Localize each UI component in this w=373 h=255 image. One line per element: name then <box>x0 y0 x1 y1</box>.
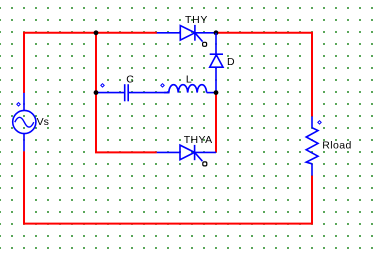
voltage source Vs <box>13 93 36 151</box>
wire THYA cathode to L/D node: vertical from (216,152.4) up to (216,92.6) <box>215 93 217 153</box>
gate terminal circle THY <box>203 42 207 46</box>
wire top-right: THY cathode node to top-right corner, down to Rload <box>216 33 312 117</box>
wire top-left: node at (96,33) to top-left corner and down left side to Vs <box>24 33 96 93</box>
polarity marker Vs <box>17 103 20 106</box>
wire bottom loop: Vs bottom down, along bottom, up to Rload bottom <box>24 151 312 223</box>
capacitor C <box>96 84 169 101</box>
svg-text:D: D <box>227 56 235 68</box>
svg-text:Rload: Rload <box>322 140 351 152</box>
wire top-mid: junction (96,33) to THY anode lead <box>96 32 157 34</box>
svg-text:C: C <box>126 73 134 85</box>
svg-text:L: L <box>186 74 192 86</box>
svg-text:THYA: THYA <box>184 134 213 146</box>
polarity marker Rload <box>318 121 321 124</box>
junction node (216,92.6) <box>214 90 219 95</box>
wire mid vertical: junction (96,33) down through (96,92.6) to THYA row, then right to THYA anode <box>96 33 157 153</box>
junction node (216,33) <box>214 30 219 35</box>
junction node (96,33) <box>94 30 99 35</box>
svg-text:Vs: Vs <box>37 116 49 128</box>
svg-text:THY: THY <box>185 14 208 26</box>
thyristor THYA <box>157 145 216 161</box>
polarity marker C <box>101 84 104 87</box>
junction node (96,92.6) <box>94 90 99 95</box>
thyristor THY <box>157 25 216 42</box>
inductor L <box>164 85 216 93</box>
polarity marker L <box>161 84 164 87</box>
resistor Rload <box>306 116 318 175</box>
diode D <box>210 33 223 93</box>
gate terminal circle THYA <box>203 162 207 166</box>
